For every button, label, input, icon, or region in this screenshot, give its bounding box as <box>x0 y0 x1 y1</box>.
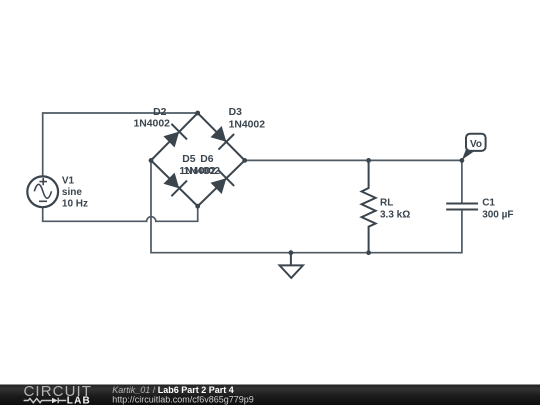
svg-text:10 Hz: 10 Hz <box>62 199 88 210</box>
svg-text:1N4002: 1N4002 <box>229 119 266 130</box>
svg-text:D5: D5 <box>182 154 196 165</box>
svg-text:LAB: LAB <box>67 396 91 405</box>
svg-text:C1: C1 <box>482 198 495 209</box>
svg-text:D6: D6 <box>200 154 214 165</box>
svg-text:V1: V1 <box>62 176 75 187</box>
svg-text:sine: sine <box>62 187 82 198</box>
svg-text:RL: RL <box>380 198 393 209</box>
svg-text:1N4002: 1N4002 <box>134 119 171 130</box>
svg-text:Kartik_01 / Lab6 Part 2 Part 4: Kartik_01 / Lab6 Part 2 Part 4 <box>112 385 234 395</box>
svg-text:D3: D3 <box>229 107 243 118</box>
svg-text:http://circuitlab.com/cf6v865g: http://circuitlab.com/cf6v865g779p9 <box>112 394 254 404</box>
svg-text:3.3 kΩ: 3.3 kΩ <box>380 209 410 220</box>
svg-text:1N4002: 1N4002 <box>184 166 221 177</box>
svg-text:Vo: Vo <box>470 139 482 150</box>
svg-text:D2: D2 <box>153 107 167 118</box>
svg-text:300 µF: 300 µF <box>482 210 513 221</box>
